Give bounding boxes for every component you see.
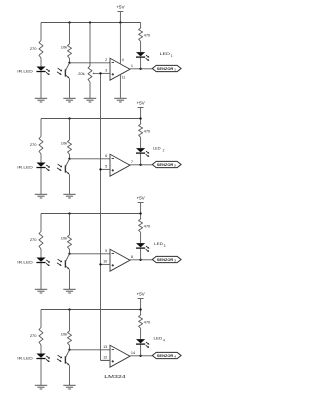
svg-text:470: 470 [144,223,151,228]
svg-text:270: 270 [30,142,37,147]
svg-text:2: 2 [105,58,107,62]
svg-text:1: 1 [171,54,173,58]
svg-text:+5V: +5V [136,195,145,200]
svg-text:LM324: LM324 [104,374,126,380]
svg-text:12: 12 [103,356,107,360]
svg-text:IR.LED: IR.LED [17,68,33,73]
svg-text:10: 10 [103,260,107,264]
svg-text:SENZOR: SENZOR [157,258,174,262]
svg-text:6: 6 [105,154,107,158]
svg-text:3: 3 [105,69,107,73]
svg-text:470: 470 [144,128,151,133]
svg-text:470: 470 [144,319,151,324]
svg-text:LED: LED [160,51,171,56]
svg-text:+5V: +5V [136,100,145,105]
svg-text:4: 4 [122,58,124,62]
svg-text:270: 270 [30,333,37,338]
svg-text:270: 270 [30,237,37,242]
svg-text:4: 4 [163,339,165,343]
svg-text:SENZOR: SENZOR [157,67,174,71]
svg-text:2: 2 [163,149,165,153]
svg-text:11: 11 [121,75,125,79]
svg-text:5: 5 [105,165,107,169]
svg-text:8: 8 [131,255,133,259]
svg-text:LED: LED [154,335,163,340]
svg-text:LED: LED [153,145,161,150]
svg-text:14: 14 [131,351,135,355]
svg-text:10k: 10k [61,331,67,336]
svg-text:+5V: +5V [136,291,145,296]
svg-text:SENZOR: SENZOR [157,354,174,358]
svg-text:+5V: +5V [116,4,125,9]
svg-text:10k: 10k [61,140,67,145]
svg-text:SENZOR: SENZOR [157,163,174,167]
svg-text:IR.LED: IR.LED [17,355,33,360]
svg-text:20k: 20k [78,71,84,76]
svg-text:1: 1 [131,64,133,68]
svg-text:9: 9 [105,249,107,253]
svg-text:10k: 10k [61,235,67,240]
svg-text:470: 470 [144,32,151,37]
svg-text:IR.LED: IR.LED [17,164,33,169]
svg-text:10k: 10k [61,44,67,49]
svg-text:270: 270 [30,46,37,51]
svg-text:IR.LED: IR.LED [17,259,33,264]
svg-text:LED: LED [154,241,163,246]
svg-text:7: 7 [131,160,133,164]
svg-text:13: 13 [103,345,107,349]
svg-text:3: 3 [164,244,166,248]
